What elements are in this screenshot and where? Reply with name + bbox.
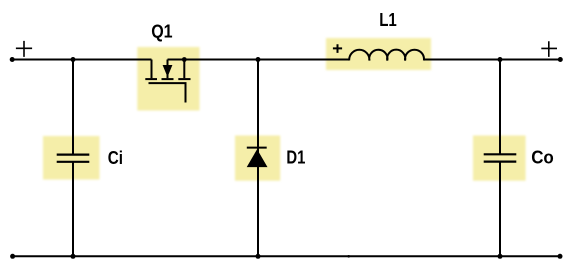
inductor L1: [333, 44, 424, 60]
wire Co branch upper: [499, 60, 501, 155]
node D1 top junction: [256, 57, 261, 62]
highlight box Q1: [137, 47, 199, 111]
wire top rail left segment: [12, 59, 152, 61]
highlight box D1: [235, 136, 280, 181]
wire bottom rail: [13, 255, 560, 257]
highlight box Ci: [43, 136, 100, 180]
wire Co branch lower: [499, 162, 501, 257]
transistor Q1: [145, 60, 190, 103]
node top-left end: [10, 57, 15, 62]
node bottom-right end: [558, 254, 563, 259]
node Co top junction: [498, 57, 503, 62]
wire top rail right segment: [424, 59, 560, 61]
svg-text:Co: Co: [531, 148, 554, 168]
svg-text:Q1: Q1: [151, 22, 172, 42]
node Ci top junction: [71, 57, 76, 62]
wire top rail middle segment: [168, 59, 350, 61]
wire D1 branch: [257, 60, 259, 257]
node D1 bottom junction: [256, 254, 261, 259]
node Co bottom junction: [498, 254, 503, 259]
wire Ci branch lower: [72, 162, 74, 256]
node top-right end: [558, 57, 563, 62]
svg-text:Ci: Ci: [108, 148, 123, 168]
wire Ci branch upper: [72, 60, 74, 155]
highlight box L1: [326, 38, 431, 70]
svg-text:D1: D1: [286, 147, 305, 167]
node Ci bottom junction: [71, 254, 76, 259]
capacitor Co: [484, 154, 517, 161]
highlight box Co: [473, 136, 526, 181]
capacitor Ci: [57, 155, 90, 162]
node bottom-left end: [10, 254, 15, 259]
node mid bottom wire joint: [347, 255, 350, 258]
node Q1 source junction: [182, 57, 187, 62]
plus terminal top-right: [541, 41, 557, 57]
plus terminal top-left: [16, 41, 32, 57]
diode D1: [247, 148, 268, 168]
svg-text:L1: L1: [379, 10, 397, 30]
